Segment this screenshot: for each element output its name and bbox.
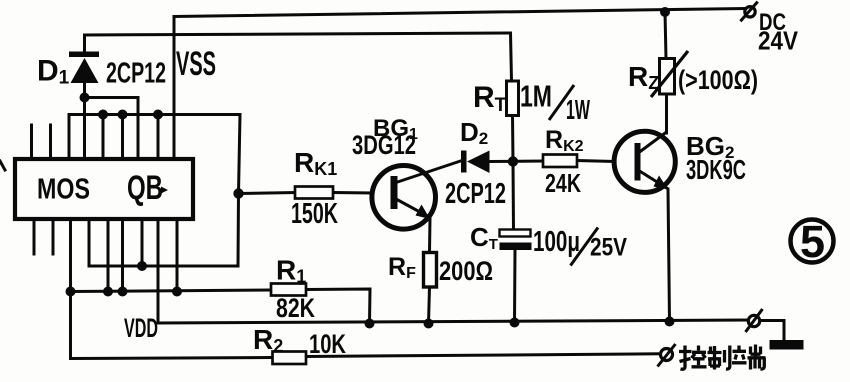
wire D1 anode link (85, 98, 139, 161)
svg-text:1M: 1M (520, 79, 552, 114)
wire lower bus to R1 (71, 290, 272, 292)
node dot R1 VDD (365, 319, 375, 329)
wire gnd link (760, 321, 785, 342)
node dot bus 3 (153, 110, 163, 120)
svg-text:3DK9C: 3DK9C (686, 154, 746, 185)
node dot bus 1 (98, 110, 108, 120)
svg-text:150K: 150K (291, 198, 338, 230)
pin MOS top stub 2 (49, 125, 52, 160)
svg-text:25V: 25V (590, 234, 627, 262)
wire D1 anode to MOS pin (83, 80, 86, 160)
wire R1 to VDD rail (306, 289, 370, 324)
wire RK1 to BG1 base (333, 191, 372, 195)
node dot BG2 emitter VDD (665, 317, 675, 327)
figure number 5 (791, 216, 834, 267)
wire D2 to RK2 (489, 160, 543, 164)
pin MOS bottom F (176, 219, 179, 292)
svg-text:24V: 24V (758, 26, 799, 56)
node dot CT VDD (510, 318, 520, 328)
MOS QB block (15, 159, 193, 219)
wire RZ top (665, 12, 666, 59)
wire QB node to RK1 (239, 193, 296, 194)
svg-text:200Ω: 200Ω (439, 256, 493, 286)
svg-text:VDD: VDD (124, 313, 158, 343)
svg-text:1W: 1W (566, 94, 590, 125)
node dot D1 anode (80, 93, 90, 103)
pin MOS bottom E (141, 219, 144, 266)
svg-text:82K: 82K (276, 293, 315, 323)
resistor RK2 24K (543, 126, 584, 198)
wire top supply rail (174, 9, 745, 17)
wire CT top (512, 162, 516, 231)
node dot lower bus 3 (118, 287, 128, 297)
node dot D2 RK2 CT (508, 156, 518, 166)
pin MOS bottom stub 2 (52, 219, 55, 254)
wire RT bottom (511, 116, 515, 162)
pin MOS bottom stub 1 (33, 219, 36, 254)
svg-text:(>100Ω): (>100Ω) (678, 65, 758, 95)
svg-text:100μ: 100μ (533, 226, 580, 258)
svg-text:3DG12: 3DG12 (352, 130, 416, 160)
svg-text:MOS: MOS (37, 174, 90, 206)
wire VDD rail (158, 320, 748, 323)
svg-text:VSS: VSS (176, 45, 216, 83)
pin MOS bottom D (121, 219, 124, 292)
node dot RF VDD (424, 319, 434, 329)
node dot bus 2 (118, 110, 128, 120)
left edge tick (0, 161, 5, 170)
terminal DC 24V (740, 2, 798, 56)
pin MOS top 3 (102, 115, 105, 161)
svg-text:QB: QB (127, 169, 163, 207)
wire top pin bus (69, 115, 240, 194)
svg-text:24K: 24K (545, 168, 581, 198)
label control terminal (Chinese) (679, 345, 766, 370)
node dot lower bus 2 (103, 287, 113, 297)
terminal ground side (746, 309, 763, 332)
resistor R1 82K (271, 255, 315, 324)
ground symbol (770, 340, 804, 350)
svg-text:5: 5 (800, 216, 825, 267)
wire VSS drop (173, 17, 176, 161)
pin MOS bottom A / wire left drop (69, 219, 72, 359)
node dot lower bus 1 (66, 287, 76, 297)
pin MOS top stub 1 (30, 125, 33, 160)
resistor RT 1M/1W (473, 79, 590, 126)
pin MOS bottom B / wire mid link (89, 219, 238, 266)
svg-text:2CP12: 2CP12 (445, 178, 506, 210)
resistor RF 200ohm (388, 253, 493, 288)
terminal control (658, 344, 676, 367)
wire CT bottom to VDD rail (513, 250, 517, 322)
node dot lower bus 4 (172, 287, 182, 297)
QB output arrow mark (161, 187, 168, 194)
wire D1 to RT top link (85, 33, 512, 81)
node dot QB (233, 188, 243, 198)
wire RF to VDD rail (429, 287, 430, 324)
node dot top rail / RZ (660, 7, 670, 17)
resistor R2 10K (253, 324, 346, 364)
resistor RZ adjustable (628, 51, 758, 97)
pin MOS bottom C (107, 219, 110, 292)
svg-text:10K: 10K (309, 329, 346, 359)
pin MOS top 5 (157, 115, 160, 161)
diode D1 (37, 52, 166, 90)
wire RZ to BG2 collector (665, 94, 668, 133)
capacitor CT 100u/25V (470, 222, 627, 266)
node dot mid link (137, 261, 147, 271)
wire control rail right (306, 354, 660, 357)
wire RK2 to BG2 base (577, 161, 614, 162)
wire BG1 emitter drop (428, 218, 432, 253)
resistor RK1 150K (291, 147, 338, 230)
transistor BG2 3DK9C (614, 131, 746, 192)
pin MOS top 4 (121, 115, 124, 161)
wire control rail left (71, 358, 273, 359)
wire QB node drop (237, 194, 241, 267)
svg-text:2CP12: 2CP12 (106, 58, 166, 90)
wire BG2 emitter drop (668, 189, 670, 322)
transistor BG1 3DG12 (352, 115, 465, 229)
diode D2 2CP12 (445, 117, 506, 210)
pin MOS bottom VDD (157, 219, 160, 323)
